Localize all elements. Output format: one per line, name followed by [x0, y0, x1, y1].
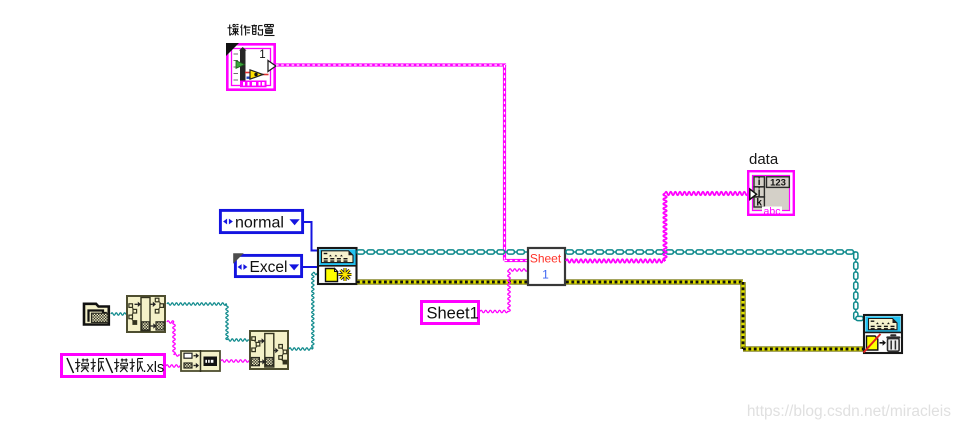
svg-text:abc: abc — [764, 206, 781, 218]
svg-text:data: data — [749, 151, 779, 168]
wire error New Report → Sheet node — [357, 280, 527, 285]
svg-text:1: 1 — [542, 267, 549, 281]
wire report refnum Sheet node → Dispose Report — [566, 250, 864, 321]
watermark blog url — [747, 403, 951, 420]
string constant \模板\模板.xls — [62, 355, 165, 377]
wire enum Excel → New Report — [302, 266, 318, 268]
wire path Strip Path → Build Path — [167, 303, 249, 341]
svg-text:Sheet: Sheet — [530, 251, 562, 265]
wire string Sheet1 → Sheet node — [480, 269, 528, 313]
svg-text:Excel: Excel — [250, 259, 288, 276]
svg-text:k: k — [756, 197, 762, 208]
wire path Build Path → New Report — [289, 272, 318, 350]
ring constant Excel — [233, 253, 301, 276]
VI New Report — [318, 248, 357, 284]
svg-text:123: 123 — [770, 177, 786, 188]
function Build Path — [250, 331, 288, 369]
svg-text:https://blog.csdn.net/miraclei: https://blog.csdn.net/miracleis — [747, 403, 951, 420]
svg-text:normal: normal — [235, 215, 284, 232]
wire enum normal → New Report — [303, 221, 318, 251]
svg-text:1: 1 — [259, 49, 265, 61]
label 操作配置 (operation config) — [228, 25, 275, 36]
wire error Sheet node → Dispose Report — [566, 280, 864, 352]
wire path folder → Strip Path — [111, 313, 126, 315]
wire string 模板.xls → Concatenate Strings — [166, 365, 180, 368]
subVI Sheet 1 — [528, 248, 565, 285]
function Strip Path — [127, 296, 165, 332]
cluster constant 操作配置 — [226, 43, 276, 90]
wire cluster (dashed magenta) 操作配置 → Sheet node — [276, 63, 528, 262]
path constant folder (default directory) — [84, 304, 109, 325]
wire report refnum New Report → Sheet node — [357, 250, 527, 254]
VI Dispose Report — [864, 315, 903, 353]
wire string Concatenate Strings → Build Path — [221, 360, 249, 363]
string constant Sheet1 — [422, 302, 479, 324]
label data — [749, 151, 779, 168]
function Concatenate Strings — [181, 350, 220, 372]
svg-text:Sheet1: Sheet1 — [427, 305, 479, 323]
wire string-array Sheet node → data — [566, 192, 748, 263]
svg-text:.xls: .xls — [143, 360, 165, 376]
ring constant normal — [220, 210, 302, 232]
wire string Strip Path → Concatenate Strings — [167, 321, 180, 357]
indicator data (2D string array) — [748, 171, 794, 217]
